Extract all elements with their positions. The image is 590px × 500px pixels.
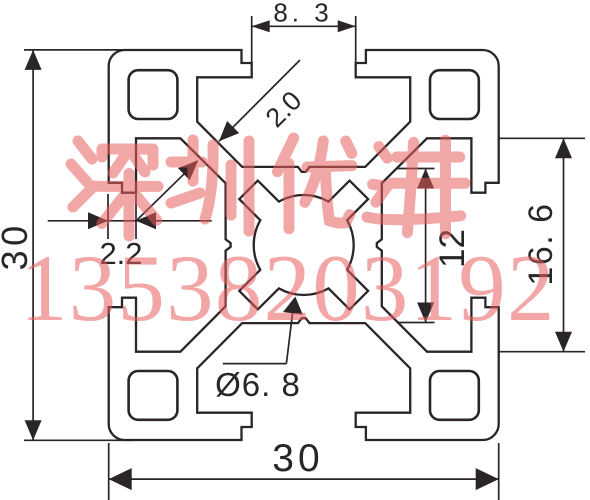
dimension 30 overall width (bottom) xyxy=(109,437,499,500)
svg-text:30: 30 xyxy=(272,437,323,480)
corner hole bottom-right xyxy=(430,371,479,420)
watermark hanzi (shen zhen you jin) xyxy=(71,138,465,236)
leader dia 6.8 center bore xyxy=(215,297,303,404)
dimension 12 core width (inner right) xyxy=(396,169,472,323)
leader 2.0 wall thickness xyxy=(219,60,308,141)
corner hole top-left xyxy=(129,70,178,119)
corner hole bottom-left xyxy=(129,371,178,420)
dimension 16.6 slot cavity width (right) xyxy=(499,138,585,351)
dimension 8.3 slot opening (top) xyxy=(252,0,356,63)
center bore with four cross slots xyxy=(239,181,368,310)
corner hole top-right xyxy=(430,70,479,119)
svg-text:13538203192: 13538203192 xyxy=(20,235,556,341)
dimension 2.2 lip thickness (left) xyxy=(48,160,212,271)
svg-text:Ø6. 8: Ø6. 8 xyxy=(215,366,301,403)
profile outline (30x30 T-slot extrusion cross-section) xyxy=(109,50,499,440)
dimension 30 overall height (left) xyxy=(0,50,134,440)
svg-text:8. 3: 8. 3 xyxy=(273,0,332,28)
